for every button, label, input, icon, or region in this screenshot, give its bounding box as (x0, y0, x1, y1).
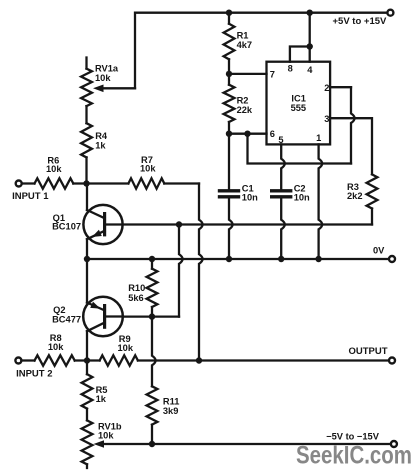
svg-text:3k9: 3k9 (163, 406, 179, 416)
svg-text:2k2: 2k2 (347, 191, 363, 201)
svg-text:+5V to +15V: +5V to +15V (333, 16, 388, 27)
svg-text:BC107: BC107 (52, 222, 81, 232)
svg-text:22k: 22k (237, 105, 253, 115)
svg-text:10k: 10k (95, 73, 111, 83)
svg-text:555: 555 (291, 103, 307, 113)
svg-text:5: 5 (278, 135, 283, 145)
svg-text:5k6: 5k6 (128, 293, 144, 303)
svg-text:10k: 10k (140, 164, 156, 174)
svg-text:10k: 10k (98, 431, 114, 441)
svg-text:10k: 10k (46, 164, 62, 174)
svg-text:7: 7 (270, 70, 275, 80)
svg-text:10k: 10k (48, 342, 64, 352)
svg-text:4k7: 4k7 (237, 40, 253, 50)
svg-text:1k: 1k (95, 141, 106, 151)
svg-text:R2: R2 (237, 96, 249, 106)
svg-text:R11: R11 (163, 396, 180, 406)
svg-text:SeekIC.com: SeekIC.com (296, 442, 412, 470)
svg-text:1: 1 (316, 133, 321, 143)
svg-text:0V: 0V (373, 246, 385, 256)
svg-text:10n: 10n (242, 192, 258, 202)
svg-text:10n: 10n (294, 192, 310, 202)
svg-text:3: 3 (324, 114, 329, 124)
svg-text:OUTPUT: OUTPUT (349, 346, 388, 357)
svg-text:4: 4 (307, 65, 313, 75)
svg-text:1k: 1k (96, 394, 107, 404)
svg-text:10k: 10k (118, 343, 134, 353)
svg-text:R1: R1 (237, 31, 249, 41)
svg-text:−5V to −15V: −5V to −15V (326, 432, 380, 442)
svg-text:6: 6 (270, 129, 275, 139)
svg-text:R10: R10 (128, 283, 145, 293)
svg-text:8: 8 (288, 64, 293, 74)
svg-text:BC477: BC477 (52, 314, 81, 324)
svg-text:INPUT 2: INPUT 2 (16, 368, 52, 379)
svg-text:INPUT 1: INPUT 1 (12, 191, 49, 202)
svg-text:2: 2 (324, 83, 329, 93)
svg-text:IC1: IC1 (291, 93, 305, 103)
